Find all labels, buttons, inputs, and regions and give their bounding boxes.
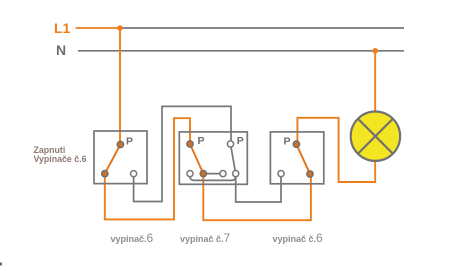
node junction on N bbox=[372, 48, 378, 54]
switch S3 terminal P bbox=[293, 141, 299, 147]
switch S2 internal link t2-t3 bbox=[203, 173, 223, 175]
switch S2 internal link t1-t4 bbox=[190, 174, 236, 181]
lamp E1 bbox=[351, 112, 400, 161]
svg-text:vypinač č.7: vypinač č.7 bbox=[180, 231, 231, 245]
corner artifact mark bbox=[0, 263, 2, 266]
switch S1 box (vypinac 6) bbox=[94, 131, 147, 184]
svg-text:Vypínače č.6: Vypínače č.6 bbox=[34, 154, 87, 164]
wire N to lamp bbox=[374, 51, 376, 112]
switch S3 terminal bottom-left bbox=[278, 171, 284, 177]
switch S3 terminal bottom-right bbox=[307, 171, 313, 177]
lamp E1 cross bbox=[358, 119, 393, 154]
wire L1 to switch S1 common bbox=[119, 28, 121, 145]
switch S1 terminal P bbox=[117, 141, 123, 147]
wire N line bbox=[78, 50, 404, 52]
wire traveler S1 to S2 (orange) bbox=[105, 118, 190, 219]
svg-text:P: P bbox=[126, 136, 133, 148]
svg-text:L1: L1 bbox=[54, 20, 71, 36]
switch S1 terminal bottom-right bbox=[131, 171, 137, 177]
svg-text:P: P bbox=[284, 136, 291, 148]
wire S2 to S3 (gray) bbox=[236, 174, 281, 202]
wire lamp return loop to switch S3 (orange) bbox=[297, 118, 375, 182]
switch S1 terminal bottom-left bbox=[102, 171, 108, 177]
switch S2 terminal b3 bbox=[220, 171, 226, 177]
switch S2 terminal P right bbox=[227, 141, 233, 147]
switch S2 arm right (gray) bbox=[231, 144, 236, 174]
switch S1 arm bbox=[105, 145, 121, 174]
svg-text:P: P bbox=[237, 135, 244, 147]
switch S2 terminal b1 bbox=[187, 171, 193, 177]
wire L1 feed (orange) bbox=[76, 27, 121, 29]
svg-text:N: N bbox=[56, 42, 66, 58]
switch S3 arm bbox=[296, 144, 310, 174]
switch S2 terminal b2 bbox=[200, 170, 206, 176]
svg-text:vypinač.6: vypinač.6 bbox=[111, 231, 154, 245]
wire L1 line (gray) bbox=[120, 27, 404, 29]
switch S2 terminal P left bbox=[187, 141, 193, 147]
switch S2 arm left (orange) bbox=[190, 144, 203, 174]
switch S3 box (vypinac 6) bbox=[270, 132, 323, 184]
svg-text:vypinač č.6: vypinač č.6 bbox=[273, 231, 324, 245]
svg-text:P: P bbox=[198, 135, 205, 147]
node junction on L1 bbox=[117, 25, 123, 31]
switch S2 box (vypinac 7, crossover) bbox=[179, 132, 247, 184]
wire traveler S1 to S2 (gray) bbox=[134, 106, 231, 201]
wire S2 to S3 (orange) bbox=[203, 174, 311, 221]
switch S2 terminal b4 bbox=[233, 171, 239, 177]
